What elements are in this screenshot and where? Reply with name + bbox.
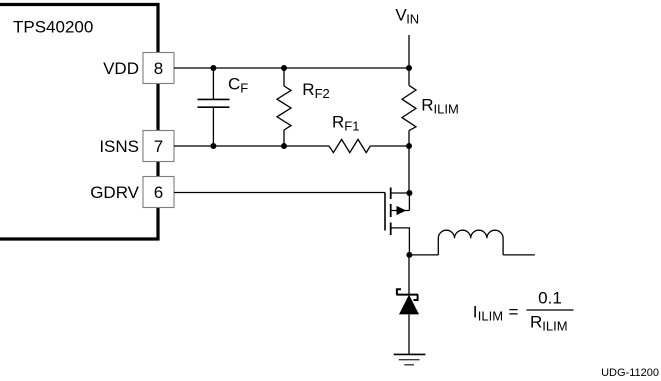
svg-text:=: = — [509, 303, 519, 322]
wire RF1 right to RILIM bottom node — [370, 145, 409, 147]
op-amp U1 IC TPS40200 outline — [0, 5, 158, 240]
wire inductor to output — [503, 254, 535, 256]
svg-text:F2: F2 — [315, 86, 330, 101]
transistor Q1 drain stub — [391, 192, 410, 194]
svg-text:GDRV: GDRV — [90, 183, 139, 202]
svg-text:UDG-11200: UDG-11200 — [601, 367, 659, 379]
node junction dot switch node — [406, 252, 412, 258]
pin 6 box — [143, 177, 174, 208]
transistor Q1 gate bar — [384, 193, 386, 231]
diode D1 anode triangle — [399, 295, 419, 315]
svg-text:C: C — [228, 75, 240, 94]
resistor RF2 — [277, 86, 291, 130]
resistor RF2 bottom lead — [283, 130, 285, 146]
pin 8 box — [143, 53, 174, 84]
svg-text:R: R — [302, 80, 314, 99]
wire diode anode to ground — [408, 314, 410, 354]
resistor RF1 — [329, 139, 370, 152]
node junction dot CF bottom — [210, 143, 216, 149]
wire node to diode cathode — [408, 255, 410, 295]
capacitor CF bottom lead — [212, 107, 214, 146]
node junction dot drain — [406, 190, 412, 196]
pin 7 box — [143, 131, 174, 162]
capacitor CF plates — [198, 98, 230, 100]
wire ISNS row pin7 to RF1 left — [174, 145, 329, 147]
node junction dot RF2 top — [281, 65, 287, 71]
transistor Q1 body to drain connector — [408, 193, 410, 211]
wire GDRV row pin6 to gate — [174, 192, 385, 194]
svg-text:ILIM: ILIM — [478, 309, 503, 324]
svg-text:F1: F1 — [344, 119, 359, 134]
wire source node to inductor — [409, 254, 438, 256]
node junction dot VIN — [406, 65, 412, 71]
capacitor CF top lead — [212, 68, 214, 99]
svg-text:ILIM: ILIM — [542, 319, 567, 334]
transistor Q1 source stub — [391, 228, 410, 255]
wire VDD row pin8 to VIN column — [174, 67, 409, 69]
svg-text:ISNS: ISNS — [99, 137, 139, 156]
svg-text:7: 7 — [154, 137, 163, 156]
svg-text:0.1: 0.1 — [538, 289, 562, 308]
transistor Q1 body stub and arrow — [391, 210, 410, 212]
svg-text:IN: IN — [406, 12, 419, 27]
resistor RILIM — [402, 85, 416, 130]
svg-text:TPS40200: TPS40200 — [13, 18, 93, 37]
inductor L1 — [438, 230, 503, 255]
diode D1 schottky cathode bar — [396, 294, 418, 296]
resistor RF2 top lead — [283, 68, 285, 86]
svg-text:8: 8 — [154, 59, 163, 78]
node junction dot CF top — [210, 65, 216, 71]
wire RILIM bottom lead — [408, 131, 410, 146]
node junction dot RF2 bottom — [281, 143, 287, 149]
svg-text:R: R — [332, 113, 344, 132]
wire VIN lead — [408, 35, 410, 68]
node junction dot ISNS — [406, 143, 412, 149]
wire VIN node to RILIM top — [408, 68, 410, 85]
transistor Q1 channel dashes — [390, 188, 392, 200]
ground — [394, 353, 426, 355]
svg-text:R: R — [421, 96, 433, 115]
svg-text:6: 6 — [154, 183, 163, 202]
svg-text:ILIM: ILIM — [434, 102, 459, 117]
svg-text:VDD: VDD — [103, 59, 139, 78]
svg-text:R: R — [530, 313, 542, 332]
svg-text:F: F — [240, 81, 248, 96]
wire RILIM node to MOSFET drain — [408, 146, 410, 193]
